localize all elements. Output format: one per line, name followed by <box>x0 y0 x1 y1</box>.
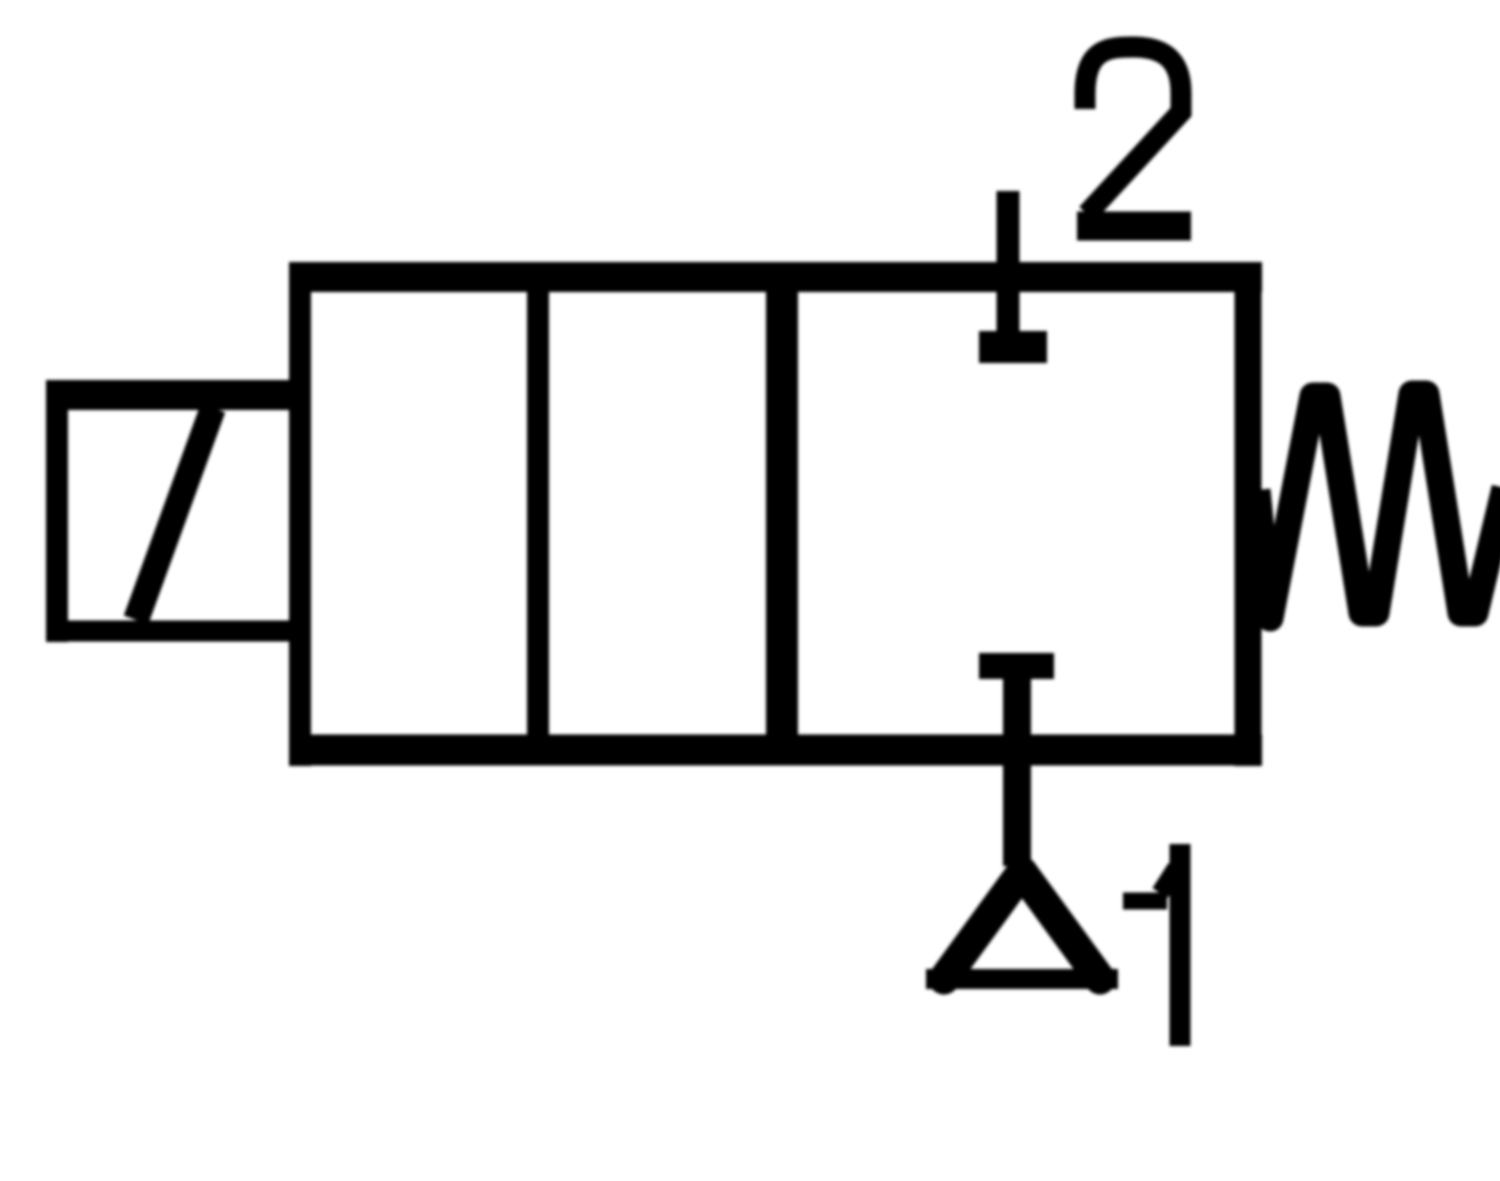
valve body left edge <box>289 262 311 766</box>
port 2 blocked-port bar <box>979 331 1047 363</box>
valve body bottom edge <box>289 735 1262 766</box>
position divider line 1 <box>527 292 549 735</box>
exhaust triangle right side <box>1022 872 1100 979</box>
port label 2 <box>1077 47 1191 226</box>
port label 1 <box>1123 844 1180 1046</box>
solenoid box top edge <box>46 380 311 410</box>
port 2 stem <box>997 191 1020 363</box>
port 1 stem <box>1003 666 1031 866</box>
exhaust triangle left side <box>944 872 1022 979</box>
solenoid diagonal stroke <box>136 408 213 620</box>
exhaust triangle base <box>926 969 1118 989</box>
port 1 blocked-port bar <box>979 653 1054 679</box>
solenoid box left edge <box>46 380 68 642</box>
return spring <box>1257 394 1500 618</box>
valve body right edge <box>1235 262 1262 766</box>
solenoid box bottom edge <box>46 621 311 642</box>
position divider line 2 <box>766 292 798 735</box>
valve body top edge <box>289 262 1262 292</box>
